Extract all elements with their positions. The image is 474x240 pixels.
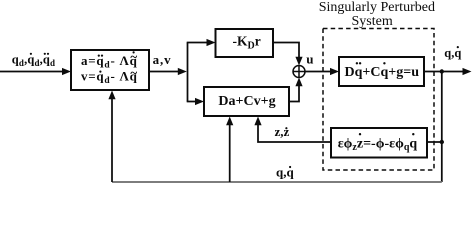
svg-text:Dq+Cq+g=u: Dq+Cq+g=u xyxy=(345,65,420,80)
svg-text:q,q: q,q xyxy=(444,46,461,60)
wire: bottom q,q' feedback line xyxy=(112,181,442,183)
block A: reference signal generator a,v xyxy=(71,49,149,90)
svg-text:~: ~ xyxy=(130,65,137,80)
wire: feedback vertical from output junction xyxy=(441,72,443,183)
wire: q,q' feedback up into Da+Cv+g xyxy=(226,117,233,183)
wire: plant output q,q' to right edge xyxy=(424,68,472,75)
block D: Da+Cv+g feedforward xyxy=(204,87,289,116)
summing junction xyxy=(293,66,305,78)
svg-text:System: System xyxy=(352,14,393,29)
wire: control signal u into plant xyxy=(305,68,339,75)
block P1: rigid dynamics Dq''+Cq'+g=u xyxy=(339,57,424,86)
wire: branch to Da+Cv+g block xyxy=(187,98,204,105)
junction dot at fast dynamics tap xyxy=(440,140,444,144)
block P2: fast dynamics xyxy=(331,128,427,158)
dashed box: singularly perturbed system boundary xyxy=(323,29,434,171)
svg-text:u: u xyxy=(306,51,313,66)
wire: branch to -KDr block xyxy=(187,39,216,46)
svg-text:qd,qd,qd: qd,qd,qd xyxy=(12,53,55,69)
wire: a,v output of block A to branch point xyxy=(149,68,187,75)
svg-text:q,q: q,q xyxy=(276,165,294,180)
node label z,z' xyxy=(275,124,290,139)
node label q_d,q'_d,q''_d (desired trajectory) xyxy=(12,53,55,69)
svg-text:Da+Cv+g: Da+Cv+g xyxy=(218,94,275,109)
wire: reference input q_d into block A xyxy=(0,68,71,75)
block K: -KDr feedback gain xyxy=(216,29,274,57)
wire: branch vertical distributing a,v xyxy=(187,43,189,102)
junction dot on output line xyxy=(440,69,444,73)
wire: q,q' feedback up into block A xyxy=(108,91,115,183)
wire: z,z' output of fast subsystem to Da+Cv+g xyxy=(254,117,331,143)
wire: q,q' into fast subsystem P2 xyxy=(427,141,442,143)
svg-text:a,v: a,v xyxy=(153,52,172,67)
node label q,q' (output) xyxy=(444,46,461,60)
node label q,q' (feedback) xyxy=(276,165,294,180)
wire: -KDr output down into summing junction xyxy=(273,43,303,66)
wire: Da+Cv+g output up into summing junction xyxy=(289,78,303,102)
svg-text:z,z: z,z xyxy=(275,124,290,139)
svg-text:Singularly Perturbed: Singularly Perturbed xyxy=(319,0,435,15)
